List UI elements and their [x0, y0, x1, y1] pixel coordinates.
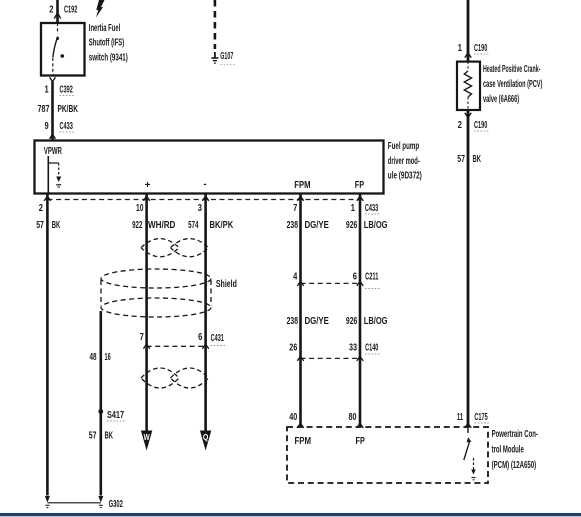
svg-text:Inertia Fuel: Inertia Fuel	[89, 23, 121, 34]
svg-text:C433: C433	[60, 121, 74, 132]
pin 11 caret at C175	[465, 423, 471, 428]
svg-text:WH/RD: WH/RD	[148, 220, 175, 231]
pin 3 caret at C433	[202, 196, 208, 201]
svg-text:W: W	[144, 433, 150, 442]
svg-text:C392: C392	[60, 85, 74, 96]
svg-text:ule (9D372): ule (9D372)	[388, 171, 422, 182]
wire: pin 3 BK/PK	[204, 194, 207, 432]
svg-text:922: 922	[132, 220, 143, 231]
ground G302 left lead arrow	[45, 496, 50, 503]
ground G302 right lead arrow	[98, 496, 103, 503]
svg-text:1: 1	[458, 43, 463, 54]
connector C433 dashed line	[48, 199, 361, 201]
pin 6 caret at C431	[202, 344, 208, 349]
shield cylinder	[101, 269, 211, 288]
wire: pin 7 DG/YE FPM	[299, 194, 302, 428]
svg-text:926: 926	[346, 220, 358, 231]
twisted pair lower right loop	[171, 368, 209, 388]
pin 80 caret at PCM	[357, 423, 363, 428]
svg-text:16: 16	[105, 352, 111, 363]
inertia fuel shutoff switch box (9341)	[41, 23, 85, 76]
pin 10 caret at C433	[143, 196, 149, 201]
off-page arrow W	[141, 431, 152, 451]
svg-text:DG/YE: DG/YE	[305, 316, 330, 327]
pin 26 caret at C140	[297, 356, 303, 361]
pin 1 caret at C433	[357, 196, 363, 201]
connector C192 caret	[54, 13, 60, 19]
svg-text:driver mod-: driver mod-	[388, 156, 420, 167]
svg-text:926: 926	[346, 316, 358, 327]
svg-text:Shield: Shield	[216, 279, 237, 290]
svg-text:574: 574	[188, 220, 199, 231]
svg-text:DG/YE: DG/YE	[305, 220, 330, 231]
svg-text:trol Module: trol Module	[492, 444, 524, 455]
svg-text:FP: FP	[356, 436, 366, 447]
svg-text:VPWR: VPWR	[44, 146, 62, 157]
svg-text:57: 57	[457, 154, 465, 165]
svg-text:7: 7	[140, 332, 145, 343]
svg-text:PK/BK: PK/BK	[58, 104, 79, 115]
svg-text:6: 6	[198, 332, 203, 343]
svg-text:Fuel pump: Fuel pump	[388, 141, 419, 152]
switch blade IFS	[53, 37, 58, 58]
svg-text:C175: C175	[474, 412, 488, 423]
pin 2 caret at C433	[44, 196, 50, 201]
wire: pin 10 WH/RD	[145, 194, 148, 432]
svg-text:10: 10	[136, 203, 144, 214]
svg-text:FPM: FPM	[295, 436, 312, 447]
connector C190 pin1 caret	[465, 53, 471, 58]
fuel pump driver module box (9D372)	[35, 141, 384, 194]
svg-text:Heated Positive Crank-: Heated Positive Crank-	[483, 64, 540, 75]
svg-text:4: 4	[293, 271, 298, 282]
shield cylinder sides	[100, 280, 102, 306]
svg-text:case Ventilation (PCV): case Ventilation (PCV)	[483, 79, 542, 90]
connector C392 caret below IFS box	[50, 77, 56, 81]
svg-text:Powertrain Con-: Powertrain Con-	[492, 429, 538, 440]
svg-text:11: 11	[457, 412, 463, 423]
svg-text:FPM: FPM	[294, 180, 310, 191]
svg-text:2: 2	[49, 5, 54, 16]
svg-text:787: 787	[38, 104, 50, 115]
svg-text:1: 1	[351, 203, 356, 214]
wire: pin 2 BK to G302	[46, 194, 49, 496]
off-page arrow Q	[200, 431, 211, 451]
svg-text:3: 3	[198, 203, 203, 214]
twisted pair upper right loop	[171, 239, 209, 257]
PCM internal ground arrow	[473, 458, 475, 470]
wire: dashed inside IFS top	[57, 23, 59, 34]
internal branch to module ground	[48, 162, 58, 164]
PCM internal switch at pin 11	[467, 427, 469, 433]
bottom blue rule	[0, 513, 581, 516]
svg-text:80: 80	[349, 412, 357, 423]
svg-text:C431: C431	[211, 333, 225, 344]
svg-text:2: 2	[39, 203, 44, 214]
svg-text:2: 2	[458, 120, 463, 131]
svg-text:BK: BK	[52, 220, 61, 231]
wire: IFS to module VPWR	[51, 82, 54, 141]
pin 7 caret at C431	[143, 344, 149, 349]
svg-text:6: 6	[353, 271, 358, 282]
dashed centerline in PCV	[467, 62, 469, 71]
connector C211 dashed line	[301, 282, 361, 284]
pin 6 caret at C211	[357, 281, 363, 286]
pin 7 caret at C433	[297, 196, 303, 201]
svg-text:7: 7	[293, 203, 298, 214]
svg-text:40: 40	[289, 412, 297, 423]
internal VPWR line	[47, 156, 49, 194]
svg-text:FP: FP	[355, 180, 365, 191]
svg-text:+: +	[145, 180, 151, 191]
svg-text:33: 33	[349, 343, 357, 354]
svg-text:G107: G107	[220, 51, 233, 62]
arrow (cut-off pointer) near top	[96, 0, 105, 18]
wire: PCV valve feed from top	[467, 0, 470, 62]
svg-text:Shutoff (IFS): Shutoff (IFS)	[89, 38, 124, 49]
svg-text:LB/OG: LB/OG	[364, 316, 388, 327]
svg-text:57: 57	[36, 220, 44, 231]
svg-text:C211: C211	[365, 271, 379, 282]
svg-text:238: 238	[287, 220, 299, 231]
connector C190 pin2 caret	[465, 113, 471, 118]
svg-text:S417: S417	[107, 410, 124, 421]
svg-text:-: -	[203, 179, 206, 190]
switch contact dot	[61, 54, 65, 58]
svg-text:C190: C190	[474, 120, 488, 131]
svg-text:BK: BK	[105, 431, 114, 442]
powertrain control module dashed box	[287, 427, 488, 483]
svg-text:BK/PK: BK/PK	[210, 220, 234, 231]
svg-text:C140: C140	[365, 343, 379, 354]
wire: shield drain	[100, 311, 103, 496]
ground G107	[214, 52, 216, 58]
svg-text:1: 1	[45, 85, 50, 96]
svg-text:Q: Q	[203, 433, 209, 442]
twisted pair lower left loop	[141, 368, 179, 388]
svg-text:C192: C192	[64, 5, 78, 16]
svg-text:26: 26	[289, 343, 297, 354]
svg-text:C190: C190	[474, 43, 488, 54]
svg-text:valve (6A666): valve (6A666)	[483, 94, 519, 105]
pin 4 caret at C211	[297, 281, 303, 286]
svg-text:switch (9341): switch (9341)	[89, 52, 128, 63]
connector C140 dashed line	[301, 357, 361, 359]
resistor zigzag PCV heater	[464, 71, 471, 97]
wire: feed into IFS switch from top	[56, 0, 59, 23]
svg-text:C433: C433	[365, 203, 379, 214]
wire: pin 1 LB/OG FP	[359, 194, 362, 428]
wire: dashed inside IFS bottom	[52, 58, 54, 76]
svg-text:BK: BK	[473, 154, 482, 165]
C431 dashed connector line	[147, 345, 206, 347]
splice S417	[98, 409, 103, 414]
caret into module top	[50, 134, 56, 139]
svg-text:(PCM) (12A650): (PCM) (12A650)	[492, 460, 537, 471]
svg-text:48: 48	[90, 352, 97, 363]
heated PCV valve box (6A666)	[457, 62, 480, 110]
wire: PCV to PCM pin 11	[467, 110, 470, 427]
svg-text:LB/OG: LB/OG	[364, 220, 388, 231]
svg-text:G302: G302	[109, 499, 123, 510]
svg-text:238: 238	[287, 316, 299, 327]
wire: dashed ground drop G107	[214, 0, 217, 49]
svg-text:57: 57	[89, 431, 97, 442]
wire: bus between ground leads	[47, 502, 100, 504]
twisted pair upper left loop	[141, 239, 179, 257]
pin 33 caret at C140	[357, 356, 363, 361]
pin 40 caret at PCM	[297, 423, 303, 428]
svg-text:9: 9	[45, 121, 50, 132]
